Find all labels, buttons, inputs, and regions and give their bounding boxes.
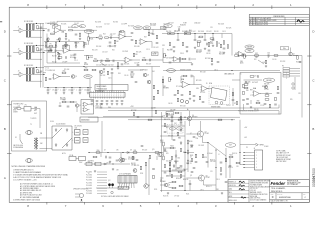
svg-text:250V: 250V bbox=[79, 162, 82, 164]
svg-text:B 2 PL CHNG E0502 8/2/99: B 2 PL CHNG E0502 8/2/99 bbox=[250, 22, 268, 24]
resistor R24 bbox=[99, 35, 103, 41]
resistor R85 bbox=[243, 84, 244, 88]
wire pa out bus bbox=[215, 150, 217, 191]
dsp module connector body bbox=[118, 176, 137, 184]
svg-text:C21 .022: C21 .022 bbox=[150, 25, 156, 27]
svg-text:PRES: PRES bbox=[248, 50, 252, 52]
ground G13 bbox=[117, 67, 119, 69]
svg-text:R71 470K: R71 470K bbox=[176, 86, 182, 88]
title row line 2 bbox=[270, 192, 310, 194]
mains wire 4 bbox=[37, 108, 40, 110]
title block signature 2 bbox=[239, 185, 245, 186]
border frame bbox=[9, 7, 309, 202]
svg-text:C72 10: C72 10 bbox=[264, 89, 269, 91]
op-amp U3B bbox=[200, 86, 208, 92]
frame tick right 2 bbox=[307, 104, 311, 106]
resistor R96 rail bbox=[148, 119, 152, 120]
connector P4 pin box 1 bbox=[283, 68, 290, 70]
wire pa r105 l bbox=[164, 147, 170, 149]
svg-text:R53 22K: R53 22K bbox=[280, 61, 285, 63]
capacitor C44 bbox=[111, 73, 114, 74]
mains box bbox=[12, 101, 47, 151]
capacitor C114 bbox=[186, 47, 189, 48]
capacitor C101 bbox=[189, 184, 192, 185]
svg-text:RT1: RT1 bbox=[18, 106, 21, 108]
wire pa res stack b bbox=[187, 154, 189, 160]
svg-text:D8: D8 bbox=[130, 149, 132, 151]
reverb jack 2 bbox=[220, 102, 223, 105]
resistor R67 bbox=[153, 96, 154, 100]
ladder stub 6 J3 bbox=[33, 73, 35, 76]
svg-text:R36: R36 bbox=[143, 58, 146, 60]
resistor R124 bbox=[179, 185, 183, 186]
wire fb drop r bbox=[59, 25, 61, 30]
svg-text:R110 10: R110 10 bbox=[228, 167, 233, 169]
svg-text:MID: MID bbox=[167, 25, 169, 27]
capacitor C118 bbox=[232, 100, 235, 101]
svg-text:10K: 10K bbox=[255, 57, 258, 59]
transistor Q12 dark bbox=[108, 183, 111, 186]
ground G35 bbox=[212, 45, 214, 47]
resistor R25 bbox=[105, 37, 109, 38]
svg-text:R99 47K: R99 47K bbox=[168, 136, 173, 138]
wire U3A fb l bbox=[181, 75, 183, 77]
filter cap C80 body bbox=[75, 130, 81, 136]
svg-text:0058523000: 0058523000 bbox=[81, 120, 90, 122]
IC U5 pin numbers bbox=[90, 95, 123, 97]
dsp module pin fan bbox=[119, 183, 135, 188]
junction EQ d3 bbox=[212, 33, 213, 34]
ladder stub 1 J2 bbox=[26, 44, 28, 47]
resistor R130 bbox=[164, 123, 165, 126]
svg-text:BRT: BRT bbox=[74, 26, 77, 28]
wire U3A out bbox=[189, 84, 202, 86]
resistor R92 bbox=[149, 155, 150, 159]
resistor R18 bbox=[49, 46, 53, 47]
ladder stub 4 J1 bbox=[26, 30, 28, 31]
svg-text:1K: 1K bbox=[218, 43, 220, 45]
svg-text:R72 470: R72 470 bbox=[196, 80, 201, 82]
wire U1B fb dl bbox=[62, 45, 64, 49]
wire EQ drop 2 bbox=[204, 34, 206, 40]
pa stack label 2 bbox=[190, 155, 194, 159]
svg-text:T1: T1 bbox=[30, 124, 32, 126]
wire reg v bbox=[156, 156, 158, 160]
size cell divider bbox=[275, 193, 277, 200]
wire low chain bbox=[84, 54, 93, 56]
reg label 2 bbox=[131, 163, 136, 167]
wire EQ drop 3 bbox=[212, 34, 214, 40]
frame tick top 4 bbox=[158, 5, 160, 9]
resistor R11 fb bbox=[64, 45, 68, 46]
wire horizontal y63 bbox=[47, 62, 80, 64]
wire U2C out bbox=[131, 59, 140, 61]
resistor R145 bbox=[232, 92, 233, 95]
wire pa h2 bbox=[162, 170, 186, 172]
svg-text:R17 1K: R17 1K bbox=[57, 54, 62, 56]
svg-text:C80 4700/35: C80 4700/35 bbox=[74, 126, 82, 128]
vr1 label bbox=[84, 42, 87, 46]
svg-text:Q9: Q9 bbox=[168, 185, 170, 187]
connector P4 wire 1 bbox=[290, 68, 301, 70]
capacitor C110 bbox=[180, 166, 183, 167]
connector p4 circle 1 bbox=[292, 83, 294, 85]
svg-text:R118: R118 bbox=[140, 173, 143, 175]
svg-text:C11: C11 bbox=[84, 90, 87, 92]
resistor R29 bbox=[148, 32, 153, 35]
svg-text:C33 .1: C33 .1 bbox=[180, 53, 184, 55]
pa left label bbox=[160, 140, 164, 144]
resistor R30 bbox=[156, 35, 157, 38]
transistor Q3 bbox=[289, 52, 295, 56]
transistor Q9 bbox=[164, 183, 170, 187]
capacitor C42 bbox=[299, 62, 302, 63]
wire U2B out bbox=[146, 41, 152, 43]
resistor R7 ladder bbox=[29, 46, 30, 52]
capacitor C24 bbox=[137, 65, 140, 66]
wire sectF2 bbox=[128, 69, 143, 71]
frame tick left 2 bbox=[7, 104, 11, 106]
resistor R73 bbox=[177, 90, 178, 93]
svg-text:R1 1M R2 68K: R1 1M R2 68K bbox=[24, 21, 33, 23]
wire low out bbox=[146, 59, 163, 61]
svg-text:C67: C67 bbox=[174, 123, 177, 125]
capacitor C86 bbox=[141, 146, 144, 147]
capacitor C43 bbox=[189, 58, 190, 61]
resistor R133 bbox=[171, 174, 172, 177]
svg-text:R98 1K: R98 1K bbox=[174, 161, 179, 163]
resistor R66 bbox=[157, 90, 158, 94]
capacitor C8 bbox=[47, 90, 50, 91]
svg-text:R95: R95 bbox=[290, 99, 293, 101]
IC U5 pins bbox=[91, 91, 123, 99]
junction rail B 5 bbox=[87, 87, 88, 88]
wire horizontal y525 bbox=[47, 52, 56, 54]
capacitor C59 bbox=[100, 107, 103, 108]
svg-text:PRINCETON 65: PRINCETON 65 bbox=[271, 191, 282, 193]
svg-text:D1-D4 1N4003: D1-D4 1N4003 bbox=[56, 123, 66, 125]
resistor R35 bbox=[133, 53, 137, 56]
junction J2 b bbox=[43, 52, 44, 53]
resistor R129 bbox=[177, 132, 178, 135]
rail A drop 1 bbox=[59, 40, 61, 41]
svg-text:U1B: U1B bbox=[63, 46, 66, 48]
capacitor C23 bbox=[121, 64, 124, 65]
svg-text:J6: J6 bbox=[254, 148, 256, 150]
wire pa out v bbox=[207, 143, 209, 168]
svg-text:C19 .1: C19 .1 bbox=[146, 49, 150, 51]
svg-text:15K: 15K bbox=[163, 29, 166, 31]
transistor Q5 bbox=[143, 73, 149, 77]
capacitor C25 bbox=[150, 59, 151, 62]
transistor Q11 bbox=[121, 158, 125, 162]
title block left row line 2 bbox=[228, 186, 249, 188]
svg-text:C41 10: C41 10 bbox=[272, 59, 277, 61]
svg-text:C97 100: C97 100 bbox=[174, 196, 179, 198]
ground G6 bbox=[55, 92, 57, 94]
resistor RB1 bbox=[45, 43, 46, 46]
wire right col a bbox=[225, 148, 227, 178]
svg-text:TP1: TP1 bbox=[171, 128, 174, 130]
capacitor C106 bbox=[164, 132, 167, 133]
op-amp U3A bbox=[181, 81, 190, 88]
resistor R126 bbox=[225, 158, 226, 161]
svg-text:TONE: TONE bbox=[183, 23, 187, 25]
capacitor C6 bbox=[74, 54, 77, 55]
capacitor C2 input bbox=[40, 49, 43, 50]
control oval REVERB bbox=[167, 69, 176, 73]
svg-text:TIP147: TIP147 bbox=[206, 177, 211, 179]
junction rail B 1 bbox=[55, 87, 56, 88]
wire low chain 2 bbox=[97, 60, 125, 62]
diode D4 bbox=[66, 144, 68, 146]
title block outline bbox=[228, 180, 309, 203]
svg-text:R22 470K: R22 470K bbox=[95, 22, 101, 24]
svg-text:P2-7 GND: P2-7 GND bbox=[86, 188, 92, 190]
svg-text:C90: C90 bbox=[196, 138, 199, 140]
svg-text:USED ON: PR 65: USED ON: PR 65 bbox=[250, 198, 261, 200]
capacitor C36 bbox=[242, 54, 243, 57]
wire jack1 out bbox=[37, 28, 48, 30]
resistor R135 bbox=[180, 148, 181, 151]
capacitor C62 bbox=[181, 95, 184, 96]
diode D10 bbox=[175, 155, 177, 157]
junction mid chain bbox=[96, 37, 97, 38]
svg-text:R49: R49 bbox=[235, 53, 238, 55]
capacitor C12 bbox=[79, 90, 82, 91]
capacitor C10 bbox=[63, 90, 66, 91]
wire stage1 link bbox=[73, 29, 85, 31]
power transistor Q7 bbox=[198, 131, 204, 137]
resistor R104 bbox=[163, 156, 164, 160]
svg-text:C13 .022: C13 .022 bbox=[60, 99, 66, 101]
resistor R51 bbox=[220, 44, 221, 47]
preamp output box bbox=[81, 100, 94, 115]
resistor R141 bbox=[133, 112, 134, 115]
svg-text:REVERB: REVERB bbox=[163, 88, 169, 90]
svg-text:J1: J1 bbox=[18, 27, 20, 29]
ground G41 bbox=[103, 68, 105, 70]
title block left row line 5 bbox=[228, 197, 249, 199]
resistor R65 bbox=[153, 85, 154, 89]
junction pa r bbox=[239, 152, 240, 153]
dsp labels bbox=[245, 81, 250, 85]
svg-text:D10 4148: D10 4148 bbox=[166, 161, 172, 163]
svg-text:R1 1M R2 68K: R1 1M R2 68K bbox=[24, 43, 33, 45]
svg-text:REVISIONS: REVISIONS bbox=[274, 16, 286, 18]
capacitor C64 bbox=[174, 95, 177, 96]
dwg no text bbox=[277, 194, 291, 199]
revision approval signature bbox=[297, 20, 304, 22]
resistor R21 input bbox=[37, 48, 38, 51]
svg-text:R80 10K: R80 10K bbox=[264, 84, 269, 86]
eq left entry box bbox=[161, 27, 167, 30]
resistor R8 bbox=[79, 33, 80, 36]
wire top hook2 bbox=[47, 22, 57, 24]
reverb return jack bbox=[185, 100, 188, 103]
mains wire 3 bbox=[31, 108, 35, 110]
resistor R57 bbox=[182, 58, 186, 59]
capacitor C58 bbox=[100, 104, 103, 105]
scale row line bbox=[270, 198, 310, 200]
ground G38 bbox=[94, 170, 96, 172]
wire EQ right bbox=[231, 34, 233, 56]
resistor R94 bbox=[132, 156, 133, 159]
title text bbox=[271, 187, 286, 193]
revision table outline bbox=[249, 15, 309, 26]
rail A drop 0 bbox=[47, 40, 49, 41]
ground G12b bbox=[109, 45, 111, 47]
wire spkr rail bbox=[240, 144, 256, 146]
junction pa mid bbox=[207, 142, 208, 143]
reg rail wire bbox=[89, 152, 163, 154]
svg-text:R54 100: R54 100 bbox=[296, 61, 301, 63]
rev cell bbox=[303, 194, 307, 199]
mains wire down bbox=[39, 109, 41, 129]
resistor R55 bbox=[265, 60, 266, 63]
wire U3B out bbox=[207, 88, 212, 90]
junction low 1 bbox=[83, 66, 84, 67]
resistor R107 bbox=[172, 187, 176, 188]
resistor R36 bbox=[142, 58, 146, 61]
junction rail p2 bbox=[231, 119, 232, 120]
ground GB4 bbox=[75, 46, 77, 48]
signal arrow low bbox=[100, 62, 106, 66]
svg-text:R8: R8 bbox=[68, 40, 70, 42]
resistor R100 bbox=[187, 140, 192, 144]
frame tick top 7 bbox=[271, 5, 273, 9]
svg-text:INSTRUMENTS CORP.: INSTRUMENTS CORP. bbox=[287, 182, 301, 184]
svg-text:R52: R52 bbox=[255, 53, 258, 55]
wire right col b bbox=[229, 158, 231, 178]
reg labels bbox=[128, 157, 135, 161]
svg-text:220K: 220K bbox=[210, 43, 213, 45]
svg-text:0039247000: 0039247000 bbox=[279, 197, 291, 199]
svg-text:-40V: -40V bbox=[244, 137, 247, 139]
ladder stub 5 J1 bbox=[29, 30, 31, 31]
reverb send jack bbox=[180, 99, 183, 102]
transistor Q16 bbox=[133, 169, 137, 173]
svg-text:P2-8 GND: P2-8 GND bbox=[86, 191, 92, 193]
reverb pot label bbox=[163, 86, 169, 90]
ground G26 bbox=[193, 100, 195, 102]
svg-text:IN: IN bbox=[206, 83, 207, 85]
wire pa res stack c bbox=[187, 164, 189, 172]
output data note bbox=[276, 150, 291, 164]
transistor Q2 bbox=[75, 104, 81, 107]
resistor R26 input bbox=[37, 70, 38, 73]
junction rail B 4 bbox=[79, 87, 80, 88]
resistor RB4 bbox=[75, 43, 76, 46]
svg-text:C88: C88 bbox=[116, 169, 119, 171]
wire pa diode col b bbox=[175, 157, 177, 161]
svg-text:C1 .047: C1 .047 bbox=[45, 23, 50, 25]
capacitor C46 bbox=[91, 101, 94, 102]
wire q14 up bbox=[145, 166, 147, 184]
svg-text:C73 .1: C73 .1 bbox=[245, 83, 249, 85]
wire eq left drop bbox=[162, 48, 164, 63]
svg-text:Q5: Q5 bbox=[147, 75, 149, 77]
resistor R80 bbox=[244, 82, 248, 85]
ground G25 bbox=[189, 98, 191, 100]
q7 label bbox=[205, 131, 210, 135]
connector P4 pin box 2 bbox=[283, 70, 290, 72]
svg-text:R97: R97 bbox=[166, 127, 169, 129]
svg-text:C24 22P: C24 22P bbox=[134, 63, 139, 65]
wire ch2 chain bbox=[44, 50, 52, 52]
ac plug circle 1 bbox=[27, 131, 31, 135]
capacitor C1 bbox=[48, 29, 49, 32]
svg-text:C92 .047: C92 .047 bbox=[210, 161, 216, 163]
resistor R72 bbox=[189, 91, 190, 95]
ground G36 bbox=[223, 52, 225, 54]
svg-text:C85: C85 bbox=[116, 149, 119, 151]
wire Q7 base feed bbox=[186, 133, 198, 135]
ladder stub 8 J3 bbox=[29, 80, 31, 83]
op-amp U7 bbox=[237, 51, 245, 56]
svg-text:C31 .1: C31 .1 bbox=[174, 31, 178, 33]
junction EQ 1 bbox=[169, 33, 170, 34]
resistor R144 bbox=[277, 86, 278, 89]
diode D1 bbox=[55, 129, 57, 131]
capacitor C19 bbox=[131, 33, 134, 34]
resistor R48 bbox=[227, 45, 228, 49]
capacitor C104 bbox=[171, 117, 174, 118]
cap lead 1 bbox=[55, 88, 57, 90]
resistor R58 bbox=[211, 58, 212, 61]
q8 label bbox=[206, 175, 211, 179]
wire bias up bbox=[100, 153, 102, 158]
resistor R131 bbox=[164, 164, 165, 167]
frame tick bottom 4 bbox=[158, 202, 160, 204]
ac plug ellipse 1 bbox=[26, 131, 33, 135]
power rail +15V bbox=[95, 107, 279, 109]
junction rail B 3 bbox=[71, 87, 72, 88]
diode D5 bbox=[127, 152, 129, 154]
control oval MIDDLE bbox=[164, 24, 172, 28]
wire lower cluster v bbox=[59, 102, 61, 105]
wire eq left h bbox=[163, 62, 192, 64]
resistor R86 bbox=[243, 91, 244, 95]
capacitor C49 bbox=[106, 101, 109, 102]
control oval MASTER bbox=[245, 45, 254, 49]
dsp box outline bbox=[240, 73, 281, 115]
wire q13 lead bbox=[112, 186, 114, 188]
speaker connector pins bbox=[244, 152, 258, 169]
svg-text:C 3 PL CHNG E0517 9/7/99: C 3 PL CHNG E0517 9/7/99 bbox=[250, 24, 268, 26]
capacitor C88 bbox=[136, 160, 139, 161]
ground G40 bbox=[186, 50, 188, 52]
cap lead 5 bbox=[87, 88, 89, 90]
resistor R15 ladder bbox=[29, 75, 30, 81]
svg-text:R17: R17 bbox=[57, 58, 60, 60]
svg-text:.XXX .005: .XXX .005 bbox=[250, 190, 256, 192]
wire pot down bbox=[88, 41, 90, 45]
svg-text:C29 .022: C29 .022 bbox=[163, 24, 169, 26]
resistor R123 bbox=[169, 168, 170, 171]
ground G17 bbox=[265, 65, 267, 67]
svg-text:L1 10uH: L1 10uH bbox=[207, 153, 212, 155]
capacitor C116 bbox=[258, 75, 259, 78]
power amp input box bbox=[281, 47, 289, 50]
resistor R117 bbox=[195, 154, 196, 158]
transistor Q4 bbox=[99, 70, 105, 74]
svg-text:C9 22PF: C9 22PF bbox=[62, 62, 67, 64]
resistor R53 bbox=[274, 55, 278, 56]
filter cap C81 body bbox=[75, 138, 81, 144]
resistor R21 bbox=[70, 101, 74, 102]
resistor R2 ladder bbox=[29, 24, 30, 30]
